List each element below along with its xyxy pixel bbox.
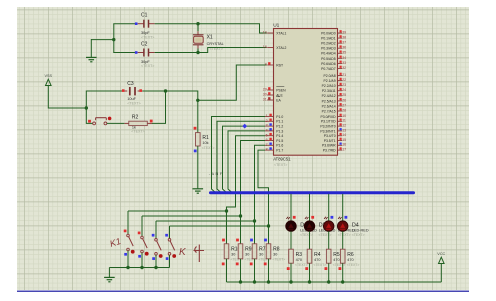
LED D4 — [337, 194, 368, 249]
svg-text:10: 10 — [342, 114, 346, 118]
svg-text:PSEN: PSEN — [276, 88, 286, 92]
resistor R9 — [236, 216, 257, 282]
svg-text:14: 14 — [342, 133, 346, 137]
svg-text:P2.3/A11: P2.3/A11 — [322, 89, 336, 93]
wire C1/C2 left vertical — [112, 24, 115, 53]
wire button to R2 — [107, 122, 125, 124]
svg-text:P1.0: P1.0 — [276, 115, 283, 119]
svg-text:470: 470 — [333, 258, 339, 262]
U1 right pin numbers P2 (21-28) — [338, 73, 347, 113]
svg-text:<TEXT>: <TEXT> — [352, 233, 365, 237]
wire reset node to RST pin — [166, 91, 198, 100]
svg-text:P3.3/INT1: P3.3/INT1 — [320, 129, 335, 133]
resistor R10 — [222, 211, 243, 282]
svg-text:<TEXT>: <TEXT> — [347, 263, 360, 267]
svg-text:P2.7/A15: P2.7/A15 — [322, 109, 336, 113]
svg-text:36: 36 — [342, 46, 346, 50]
svg-text:U1: U1 — [273, 23, 279, 29]
svg-text:35: 35 — [342, 51, 346, 55]
svg-text:31: 31 — [263, 98, 267, 102]
svg-text:P2.5/A13: P2.5/A13 — [322, 99, 336, 103]
svg-text:P3.0/RXD: P3.0/RXD — [321, 115, 337, 119]
svg-text:X1: X1 — [207, 35, 213, 41]
svg-text:10k: 10k — [202, 141, 208, 145]
LED D2 — [304, 194, 335, 249]
svg-text:21: 21 — [342, 73, 346, 77]
switch SW1 — [124, 211, 135, 268]
svg-text:VCC: VCC — [437, 252, 445, 256]
svg-text:LED-RED: LED-RED — [352, 229, 369, 233]
wire R2 riser — [152, 91, 166, 124]
power VCC — [437, 252, 445, 264]
svg-text:<TEXT>: <TEXT> — [338, 233, 351, 237]
resistor R5 — [325, 249, 346, 282]
U1 right pin numbers P3 (10-17) — [338, 114, 347, 152]
wire branch down to button — [86, 108, 92, 123]
svg-text:12: 12 — [342, 124, 346, 128]
svg-text:1: 1 — [266, 114, 268, 118]
svg-text:29: 29 — [263, 88, 267, 92]
svg-text:P3.4/T0: P3.4/T0 — [324, 134, 336, 138]
svg-text:P0.0/AD0: P0.0/AD0 — [321, 31, 336, 35]
node RST junction — [196, 99, 199, 102]
svg-text:11: 11 — [342, 119, 346, 123]
svg-text:P3.6/WR: P3.6/WR — [322, 144, 336, 148]
svg-text:9: 9 — [265, 63, 267, 67]
svg-text:30: 30 — [231, 252, 235, 256]
svg-text:<TEXT>: <TEXT> — [314, 263, 327, 267]
resistor R3 — [287, 249, 308, 282]
wire branch up to C3 — [86, 91, 122, 108]
node P1.2 marker — [242, 124, 247, 129]
svg-text:470: 470 — [347, 258, 353, 262]
svg-text:P0.4/AD4: P0.4/AD4 — [321, 52, 336, 56]
svg-text:<TEXT>: <TEXT> — [273, 257, 286, 261]
wire P1.5 to switch row2 — [241, 141, 266, 217]
svg-text:13: 13 — [342, 128, 346, 132]
wire C2 to XTAL2 (pin18) — [155, 48, 267, 53]
svg-text:<TEXT>: <TEXT> — [319, 233, 332, 237]
wire switch row 3 — [156, 219, 256, 222]
wire P1.0 to bus — [212, 117, 266, 192]
wire switch row 4 — [170, 224, 271, 227]
svg-text:P1.6: P1.6 — [276, 144, 283, 148]
svg-text:VSS: VSS — [44, 74, 52, 78]
svg-text:470: 470 — [296, 258, 302, 262]
svg-text:P1.1: P1.1 — [276, 120, 283, 124]
ground below R1 — [193, 189, 204, 193]
U1 right pin numbers P0 (39-32) — [338, 30, 347, 70]
wire P1.4 to switch row1 — [227, 136, 266, 211]
svg-text:<TEXT>: <TEXT> — [127, 102, 140, 106]
IC U1 AT89C51 body — [273, 23, 337, 167]
svg-text:<TEXT>: <TEXT> — [274, 163, 287, 167]
svg-text:P0.1/AD1: P0.1/AD1 — [321, 36, 336, 40]
svg-text:2: 2 — [266, 119, 268, 123]
wire VSS to reset branch — [48, 86, 86, 109]
svg-text:P2.4/A12: P2.4/A12 — [322, 94, 336, 98]
svg-text:P2.2/A10: P2.2/A10 — [322, 84, 336, 88]
svg-text:30: 30 — [263, 93, 267, 97]
LED D3 — [323, 194, 354, 249]
svg-text:34: 34 — [342, 56, 346, 60]
svg-text:EA: EA — [276, 98, 281, 102]
svg-text:17: 17 — [342, 148, 346, 152]
svg-text:XTAL2: XTAL2 — [276, 46, 286, 50]
resistor R8 — [264, 226, 285, 282]
svg-text:P0.2/AD2: P0.2/AD2 — [321, 42, 336, 46]
svg-text:39: 39 — [342, 30, 346, 34]
wire C1 to XTAL1 (pin19) — [155, 24, 267, 33]
button reset — [88, 117, 111, 125]
power VSS — [44, 74, 52, 86]
svg-text:38: 38 — [342, 35, 346, 39]
svg-text:27: 27 — [342, 103, 346, 107]
U1 left pin numbers — [263, 31, 274, 152]
svg-text:28: 28 — [342, 108, 346, 112]
svg-text:P3.2/INT0: P3.2/INT0 — [320, 125, 335, 129]
svg-text:30: 30 — [273, 252, 277, 256]
wire C3 to riser — [143, 90, 166, 92]
ground near C2 — [86, 57, 97, 61]
svg-text:8: 8 — [266, 148, 268, 152]
wire RST to pin 9 — [198, 65, 267, 100]
resistor R1 — [194, 100, 215, 188]
svg-text:P2.6/A14: P2.6/A14 — [322, 104, 336, 108]
svg-text:P0.7/AD7: P0.7/AD7 — [321, 67, 336, 71]
svg-text:33: 33 — [342, 61, 346, 65]
svg-text:P1.7: P1.7 — [276, 149, 283, 153]
LED D1 — [286, 194, 317, 249]
svg-text:XTAL1: XTAL1 — [276, 31, 286, 35]
wire VCC riser — [440, 264, 442, 282]
node crystal top — [196, 22, 199, 25]
U1 right pin labels — [320, 31, 336, 152]
svg-text:7: 7 — [266, 143, 268, 147]
wire P1.1 to bus — [217, 121, 265, 192]
svg-text:AT89C51: AT89C51 — [273, 157, 291, 162]
svg-text:-ΔNF: -ΔNF — [209, 171, 224, 176]
wire switch row 1 — [128, 209, 228, 212]
node reset branch — [85, 106, 88, 109]
svg-text:<TEXT>: <TEXT> — [295, 263, 308, 267]
svg-text:<TEXT>: <TEXT> — [131, 130, 144, 134]
svg-text:6: 6 — [266, 138, 268, 142]
svg-text:22: 22 — [342, 78, 346, 82]
svg-text:25: 25 — [342, 93, 346, 97]
switch SW3 — [152, 221, 163, 268]
svg-text:37: 37 — [342, 41, 346, 45]
svg-text:18: 18 — [263, 45, 267, 49]
svg-text:P2.1/A9: P2.1/A9 — [324, 79, 336, 83]
wire switch row 2 — [142, 214, 242, 217]
svg-text:CRYSTAL: CRYSTAL — [207, 42, 224, 46]
svg-text:15: 15 — [342, 138, 346, 142]
bus P1 — [211, 191, 414, 194]
svg-text:P0.3/AD3: P0.3/AD3 — [321, 47, 336, 51]
svg-text:470: 470 — [314, 258, 320, 262]
svg-text:P2.0/A8: P2.0/A8 — [324, 74, 336, 78]
svg-text:<TEXT>: <TEXT> — [300, 233, 313, 237]
svg-text:32: 32 — [342, 66, 346, 70]
svg-text:RST: RST — [276, 63, 283, 67]
svg-text:P1.3: P1.3 — [276, 129, 283, 133]
svg-text:3: 3 — [266, 124, 268, 128]
wire P1.2 to bus — [223, 126, 266, 192]
svg-text:4: 4 — [266, 129, 268, 133]
svg-text:C2: C2 — [141, 41, 148, 47]
U1 left pin labels — [276, 31, 286, 152]
svg-text:C1: C1 — [141, 13, 148, 19]
svg-text:16: 16 — [342, 143, 346, 147]
svg-text:C3: C3 — [127, 81, 134, 87]
node crystal bottom — [196, 51, 199, 54]
wire P1.7 to switch row4 — [258, 150, 269, 226]
bus net label — [209, 171, 224, 176]
svg-text:26: 26 — [342, 98, 346, 102]
resistor R7 — [250, 221, 271, 282]
capacitor C2 — [113, 41, 154, 68]
svg-text:P1.2: P1.2 — [276, 125, 283, 129]
wire switch ground rail — [109, 266, 169, 277]
svg-text:19: 19 — [263, 31, 267, 35]
svg-text:30: 30 — [259, 252, 263, 256]
svg-text:P3.1/TXD: P3.1/TXD — [321, 120, 336, 124]
svg-text:<TEXT>: <TEXT> — [141, 35, 154, 39]
svg-text:5: 5 — [266, 133, 268, 137]
svg-text:P3.5/T1: P3.5/T1 — [324, 139, 336, 143]
svg-text:P3.7/RD: P3.7/RD — [323, 149, 336, 153]
crystal X1 — [193, 24, 224, 53]
svg-text:P1.5: P1.5 — [276, 139, 283, 143]
switch SW4 — [165, 226, 176, 268]
wire bottom rail — [227, 280, 442, 283]
wire P1.6 to switch row3 — [255, 145, 266, 221]
node C3/R2 junction — [164, 89, 167, 92]
svg-text:30: 30 — [245, 252, 249, 256]
svg-text:<TEXT>: <TEXT> — [202, 146, 215, 150]
svg-text:23: 23 — [342, 83, 346, 87]
resistor R6 — [339, 249, 360, 282]
resistor R2 — [124, 115, 152, 134]
svg-text:P0.6/AD6: P0.6/AD6 — [321, 62, 336, 66]
svg-text:R2: R2 — [132, 115, 139, 121]
capacitor C3 — [122, 81, 143, 106]
wire ground branch — [91, 39, 114, 57]
wire P1.3 to bus — [228, 131, 265, 192]
annotation K1 — [109, 236, 123, 249]
svg-text:P0.5/AD5: P0.5/AD5 — [321, 57, 336, 61]
resistor R4 — [305, 249, 326, 282]
svg-text:<TEXT>: <TEXT> — [141, 64, 154, 68]
svg-text:24: 24 — [342, 88, 346, 92]
capacitor C1 — [113, 13, 154, 40]
ground switch rail — [104, 277, 115, 281]
switch SW2 — [138, 216, 149, 268]
annotation K4 — [179, 245, 204, 263]
svg-text:P1.4: P1.4 — [276, 134, 283, 138]
